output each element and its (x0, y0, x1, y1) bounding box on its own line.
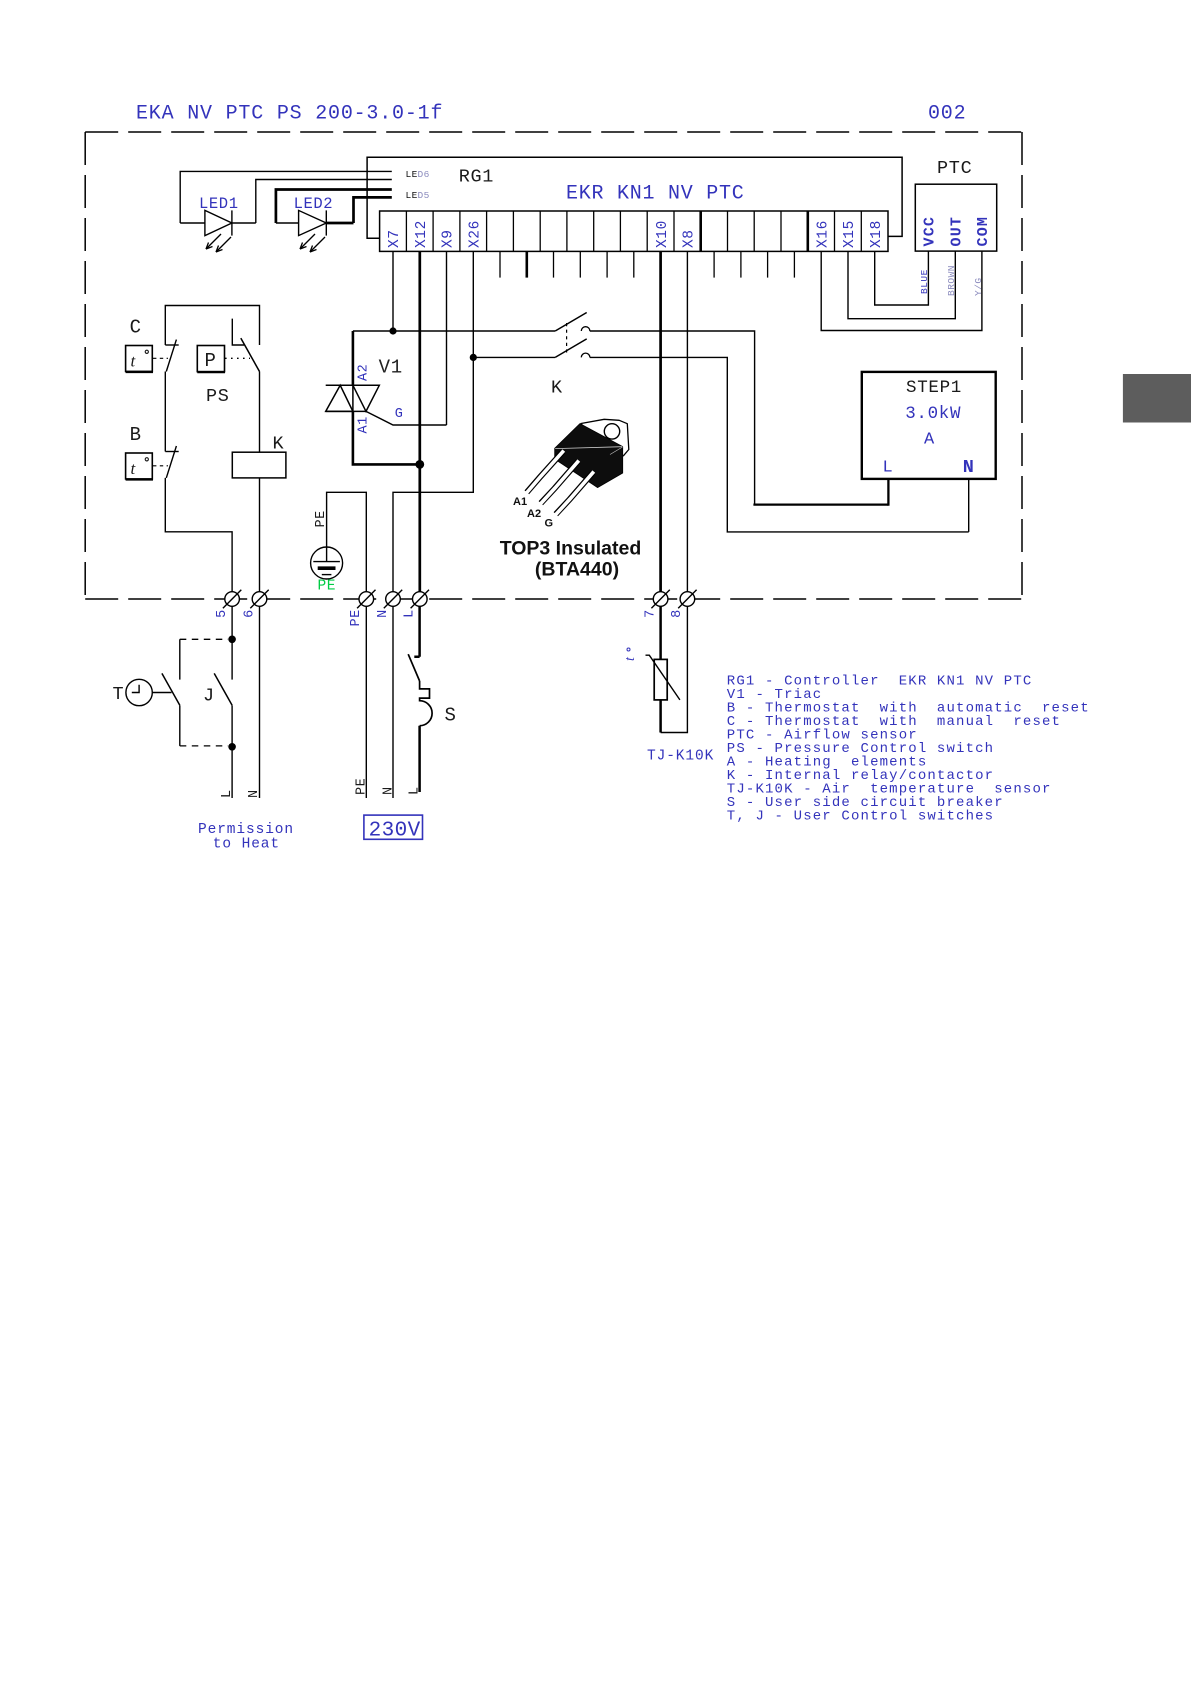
terminal L (411, 590, 429, 608)
svg-text:t: t (131, 352, 137, 371)
gray marker box at right edge (1123, 374, 1191, 423)
svg-text:VCC: VCC (922, 216, 939, 247)
svg-text:OUT: OUT (948, 216, 965, 247)
label LED1 (199, 195, 239, 213)
svg-text:N: N (381, 786, 396, 795)
wire end label PE (right) (355, 778, 370, 795)
pressure switch PS blade (241, 338, 260, 371)
triac V1 symbol (326, 385, 380, 411)
svg-text:A2: A2 (357, 364, 372, 381)
svg-text:LE: LE (406, 190, 418, 201)
pin label COM (975, 216, 992, 247)
svg-text:G: G (545, 518, 554, 530)
timer T symbol (126, 679, 172, 705)
title EKA NV PTC PS 200-3.0-1f (136, 103, 443, 126)
dotted link P box to blade (225, 357, 250, 359)
wire X18 to PTC VCC (875, 251, 929, 305)
svg-text:N: N (376, 609, 391, 618)
pressure switch PS fixed contact (232, 319, 244, 345)
breaker S upper wire (414, 606, 419, 657)
package pin label A2 (527, 508, 541, 520)
package tab hole (604, 424, 619, 439)
terminal strip of RG1 (380, 211, 888, 251)
label B (130, 424, 142, 446)
wire LED5 return from LED2 cathode to RG1 (bold) (354, 197, 392, 223)
junction node A1 / X12 (bold) (415, 460, 424, 469)
svg-text:8: 8 (670, 609, 685, 618)
package pin label G (545, 518, 554, 530)
switch J blade (214, 673, 232, 705)
sensor PTC box (915, 184, 996, 251)
label 230V (369, 819, 421, 842)
230V supply box (364, 815, 423, 839)
ground earth symbol (311, 547, 343, 579)
switch J lower wire (231, 705, 233, 747)
heater STEP1 box (862, 372, 996, 479)
dashed link B box to blade (153, 465, 168, 467)
label TOP3 Insulated (500, 538, 642, 560)
triac V1 gate lead to X9 wire (366, 411, 447, 425)
LED2 emission arrows (300, 234, 325, 252)
label V1 (379, 357, 403, 379)
svg-text:Y/G: Y/G (973, 277, 984, 296)
label TJ-K10K (647, 749, 714, 765)
package pin label A1 (513, 496, 527, 508)
svg-text:K: K (551, 377, 563, 398)
label PE (wire, rotated) (314, 510, 329, 527)
terminal 6 (250, 590, 268, 608)
legend text block (727, 674, 1090, 825)
label LED6 (406, 169, 430, 180)
wire PE terminal to earth (327, 492, 367, 599)
switch T upper wire (179, 639, 181, 679)
svg-text:A: A (924, 431, 935, 450)
label A2 (357, 364, 372, 381)
svg-text:BLUE: BLUE (919, 269, 930, 294)
svg-text:T, J - User Control switches: T, J - User Control switches (727, 809, 994, 825)
label K (contacts) (551, 377, 563, 398)
wire LED6 line from LED1 anode to RG1 (180, 171, 392, 223)
label 3.0kW (905, 404, 961, 424)
svg-text:3.0kW: 3.0kW (905, 404, 961, 424)
LED1 emission arrows (206, 234, 231, 252)
wire terminal 5 down (user L) (231, 606, 233, 798)
thermostat B contact (tick and blade) (165, 446, 178, 478)
svg-text:6: 6 (242, 609, 257, 618)
svg-text:T: T (113, 684, 125, 705)
label A1 (357, 416, 372, 433)
svg-text:X12: X12 (414, 220, 430, 248)
svg-text:PS: PS (206, 386, 230, 407)
heater STEP1 L leg (887, 479, 889, 506)
pin label OUT (948, 216, 965, 247)
svg-text:X16: X16 (815, 220, 831, 248)
svg-text:PE: PE (318, 579, 337, 595)
wire terminal 6 down (user N) (259, 606, 261, 798)
wire label BLUE (919, 269, 930, 294)
relay contact K upper blade (555, 313, 587, 332)
package body (555, 424, 623, 488)
svg-text:A1: A1 (513, 496, 527, 508)
thermostat C t-box glyph (131, 350, 149, 370)
svg-text:A2: A2 (527, 508, 541, 520)
package lead A2 (541, 462, 578, 504)
thermostat C contact (tick and blade) (165, 340, 178, 372)
svg-text:X15: X15 (842, 220, 858, 248)
terminal PE (357, 590, 375, 608)
wire X8 down to terminal 8 (686, 251, 688, 599)
wire thermistor bottom loop to terminal 8 (659, 700, 662, 733)
heater STEP1 N leg (968, 479, 970, 532)
svg-text:P: P (205, 350, 216, 372)
breaker S thermal and magnetic elements (420, 681, 433, 726)
svg-text:L: L (883, 458, 893, 477)
package metal tab (581, 419, 629, 459)
svg-text:L: L (220, 789, 235, 798)
wire PE user side (365, 606, 367, 798)
LED LED1 (180, 210, 256, 235)
svg-text:L: L (403, 609, 418, 618)
svg-text:D5: D5 (418, 190, 430, 201)
relay contact K upper fixed hook (581, 327, 590, 331)
label STEP1 (906, 378, 962, 398)
wire X16 to PTC COM (821, 251, 982, 330)
svg-text:D6: D6 (418, 169, 430, 180)
wire terminal 7 to thermistor (659, 606, 662, 659)
svg-text:X8: X8 (682, 229, 698, 248)
wire X7 down to relay line (392, 251, 394, 331)
svg-text:A1: A1 (357, 416, 372, 433)
thermostat C t-box (126, 346, 153, 373)
svg-text:PTC: PTC (937, 158, 972, 179)
pressure switch P box (197, 346, 225, 373)
svg-text:EKR KN1 NV PTC: EKR KN1 NV PTC (566, 182, 745, 205)
junction node top of T/J (228, 636, 236, 644)
switch J upper wire (231, 639, 233, 679)
wire LED2 cathode bold segment (326, 222, 353, 225)
svg-text:5: 5 (215, 609, 230, 618)
wire coil K to terminal 6 (259, 478, 261, 599)
breaker S lower wire (418, 726, 421, 792)
junction node X26 / lower relay line (470, 354, 477, 361)
relay contact K lower fixed hook (581, 353, 590, 357)
junction node bottom of T/J (228, 743, 236, 751)
svg-text:PE: PE (349, 609, 364, 626)
package lead A1 (527, 452, 563, 493)
thermistor diagonal mark (646, 655, 680, 700)
wire X10 bold down to terminal 7 (659, 251, 662, 599)
svg-text:B: B (130, 424, 142, 446)
svg-text:BROWN: BROWN (946, 265, 957, 296)
wire label BROWN (946, 265, 957, 296)
svg-text:G: G (395, 407, 403, 422)
wire X26 down to relay line and terminal N (393, 251, 473, 599)
svg-text:PE: PE (355, 778, 370, 795)
breaker S blade (408, 654, 419, 681)
svg-text:S: S (445, 705, 457, 727)
svg-text:002: 002 (928, 103, 966, 126)
svg-text:t: t (623, 656, 638, 661)
wire end label L (left) (220, 789, 235, 798)
svg-text:L: L (407, 786, 422, 795)
svg-text:N: N (247, 789, 262, 798)
triac V1 A1 lead bold to X12 wire (353, 411, 420, 464)
label LED5 (406, 190, 430, 201)
relay coil K box (232, 452, 286, 478)
label (BTA440) (535, 559, 619, 581)
unused terminal stubs below strip (500, 251, 794, 277)
terminal 5 (223, 590, 241, 608)
svg-text:X9: X9 (441, 229, 457, 248)
label PS (206, 386, 230, 407)
wire LED5 line from LED2 anode to RG1 (bold) (276, 190, 392, 224)
thermistor TJ-K10K body (654, 659, 667, 700)
wire X9 down to triac gate (446, 251, 448, 425)
label LED2 (294, 195, 334, 213)
svg-text:K: K (273, 433, 285, 454)
enclosure dashed border (85, 132, 1022, 599)
label EKR KN1 NV PTC (566, 182, 745, 205)
label A (heating element) (924, 431, 935, 450)
svg-text:TJ-K10K: TJ-K10K (647, 749, 714, 765)
thermostat B t-box glyph (131, 458, 149, 478)
junction node X7 / A2 line (389, 327, 396, 334)
pin label N (963, 457, 974, 478)
svg-text:X10: X10 (655, 220, 671, 248)
package lead G (556, 473, 593, 515)
label Permission to Heat (198, 822, 294, 853)
svg-text:t: t (131, 459, 137, 478)
wire bold to STEP1 L (753, 503, 888, 505)
label G (395, 407, 403, 422)
label T (113, 684, 125, 705)
svg-text:Permission: Permission (198, 822, 294, 838)
dashed link C box to blade (153, 357, 168, 359)
svg-text:to Heat: to Heat (213, 837, 280, 853)
label PE (green) (318, 579, 337, 595)
terminal N (384, 590, 402, 608)
svg-text:J: J (203, 686, 215, 707)
terminal 8 (678, 590, 696, 608)
wire LED6 return line from LED1 cathode to RG1 (256, 180, 392, 224)
wire N user side (392, 606, 394, 798)
wire between C and B (164, 372, 166, 452)
wire upper relay line from V1 A2 to contact (353, 330, 555, 332)
svg-text:X18: X18 (869, 220, 885, 248)
label C (130, 317, 142, 339)
label J (203, 686, 215, 707)
svg-text:PE: PE (314, 510, 329, 527)
wire lower contact to STEP1 N (590, 357, 969, 532)
dashed T branch bottom (180, 745, 228, 747)
wire lower relay line from X26 to contact (473, 356, 555, 358)
wire top of control branch (165, 306, 259, 346)
svg-text:RG1: RG1 (459, 167, 494, 188)
switch T blade (162, 673, 180, 705)
wire end label N (right) (381, 786, 396, 795)
wire X12 bold down to terminal L (418, 251, 421, 599)
wire label Y/G (973, 277, 984, 296)
svg-text:LE: LE (406, 169, 418, 180)
svg-text:V1: V1 (379, 357, 403, 379)
wire end label L (right) (407, 786, 422, 795)
controller RG1 box (367, 157, 902, 238)
svg-text:N: N (963, 457, 974, 478)
svg-text:COM: COM (975, 216, 992, 247)
pressure switch P box glyph (205, 350, 216, 372)
svg-text:230V: 230V (369, 819, 421, 842)
label RG1 (459, 167, 494, 188)
svg-text:C: C (130, 317, 142, 339)
LED LED2 (276, 210, 326, 235)
svg-text:LED1: LED1 (199, 195, 239, 213)
switch T lower wire (179, 705, 181, 746)
label K (coil) (273, 433, 285, 454)
wire PS to coil K (259, 372, 261, 453)
svg-text:7: 7 (643, 609, 658, 618)
wire end label N (left) (247, 789, 262, 798)
svg-text:X7: X7 (387, 229, 403, 248)
label S (445, 705, 457, 727)
TOP3 package illustration (BTA440) (526, 419, 629, 515)
thermostat B t-box (126, 453, 153, 480)
triac V1 A2 lead (352, 331, 355, 385)
dashed T branch top (180, 638, 228, 640)
pin label L (883, 458, 893, 477)
svg-text:STEP1: STEP1 (906, 378, 962, 398)
wire X15 to PTC OUT (848, 251, 955, 319)
terminal 7 (651, 590, 669, 608)
svg-text:TOP3 Insulated: TOP3 Insulated (500, 538, 642, 560)
package body seam (555, 447, 622, 449)
terminal strip pin labels X7 X12 X9 X26 X10 X8 X16 X15 X18 (387, 220, 885, 248)
svg-text:EKA NV PTC PS 200-3.0-1f: EKA NV PTC PS 200-3.0-1f (136, 103, 443, 126)
sheet number 002 (928, 103, 966, 126)
svg-text:LED2: LED2 (294, 195, 334, 213)
pin label VCC (922, 216, 939, 247)
wire B to terminal 5 (165, 478, 232, 599)
relay K contacts mechanical link (566, 323, 568, 353)
relay contact K lower blade (555, 339, 587, 358)
label PTC (937, 158, 972, 179)
svg-text:(BTA440): (BTA440) (535, 559, 619, 581)
label t deg (thermistor) (623, 648, 638, 661)
svg-text:X26: X26 (468, 220, 484, 248)
wire upper contact to right corner and STEP1 L (590, 331, 755, 505)
